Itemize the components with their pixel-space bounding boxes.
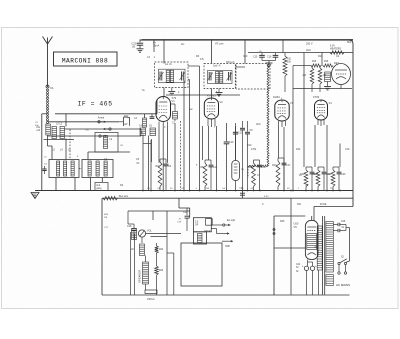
svg-text:V1: V1 [172,99,176,103]
rectifier wires [305,216,311,266]
wire row2 [48,121,119,123]
IF label [78,101,113,108]
right border wire [349,40,353,207]
svg-text:15mA: 15mA [153,45,160,48]
svg-text:C23: C23 [183,211,188,214]
speaker box [206,219,213,226]
wire x7 [292,89,294,191]
svg-text:AC: AC [181,43,185,46]
wire g V2 [174,123,176,191]
svg-text:OP: OP [195,225,199,227]
svg-text:C12: C12 [262,166,267,169]
svg-text:FUSE: FUSE [320,203,327,206]
svg-text:R11: R11 [318,55,323,58]
wire top row [55,114,130,127]
IFT1 inner box [159,69,186,83]
band switch arrows left [98,116,111,137]
detector tube V3a [332,62,351,85]
V1 cathode RC [155,159,171,191]
AVC line right [248,40,353,54]
ground under C20 [137,49,144,52]
audio wires 1 [128,211,153,224]
title box MARCONI 888 [54,52,118,66]
wire k V1c [167,126,169,163]
osc coil L6 [134,117,146,127]
detector feed [244,40,246,64]
svg-text:HT core: HT core [215,42,224,45]
avc resistor R18 [318,66,326,93]
RC pair x255 [249,160,267,191]
mains transformer secondary [317,226,322,270]
svg-text:6K4: 6K4 [347,41,352,44]
svg-text:465 kc/s: 465 kc/s [226,62,235,64]
tube V1 6BE6 [156,96,177,122]
2nd gang trimmer box [95,183,108,191]
bplus stub [153,40,155,52]
caps common ground [262,61,276,67]
mixer grid wires [130,100,157,136]
fuse wire [314,203,353,207]
svg-text:R22: R22 [159,249,164,251]
top cap capacitor [171,104,178,125]
svg-text:coil: coil [36,129,40,132]
V4 cathode RC2 [312,167,331,191]
speaker cone box [193,232,206,244]
IFT1 shield [155,62,189,88]
mains transformer core [323,216,325,295]
svg-text:2nd.: 2nd. [96,185,101,187]
svg-text:R16: R16 [324,61,329,63]
wire cathode V1 [158,127,160,163]
wire s V2 [216,126,218,191]
cap line C11b [240,121,245,191]
svg-text:250 V: 250 V [306,42,313,45]
svg-text:1M: 1M [104,217,107,219]
svg-text:HEATERS: HEATERS [330,48,342,51]
speaker terminals [211,219,235,242]
aerial coupling coil L1 [36,124,50,135]
wire w184 [183,81,185,191]
svg-text:R14: R14 [296,148,301,151]
svg-text:C10: C10 [229,141,234,144]
coil box ground wires [56,178,102,192]
svg-text:C13: C13 [238,132,243,135]
svg-text:DET: DET [334,62,339,65]
wire x3 [235,126,237,160]
svg-text:V5: V5 [294,225,298,229]
transformer taps [315,246,318,248]
IFT2 inner box [208,71,233,84]
svg-text:Aerial: Aerial [98,116,105,119]
wire x322 [321,53,323,67]
bus value labels [147,188,333,198]
mains caps [333,221,346,232]
wire k V2 [208,126,210,160]
IFT2 trimmers [207,72,232,81]
svg-text:2nd I.F.: 2nd I.F. [213,65,221,68]
svg-text:1M: 1M [323,74,326,77]
svg-text:C16: C16 [267,56,272,59]
wire k V1b [162,128,164,191]
HT labels [153,42,313,48]
feedback box [181,243,222,286]
svg-text:C24: C24 [296,264,301,266]
cap line C12b [245,121,253,191]
bus drop step [179,198,190,218]
cathode bypass C19 [177,208,190,231]
heater rail [166,94,240,96]
IFT2 bottom wire [211,89,213,99]
electro cap [232,161,245,191]
svg-text:C19: C19 [345,148,350,151]
svg-text:Bus wire: Bus wire [119,195,129,198]
svg-text:AC MAINS: AC MAINS [336,283,350,287]
svg-text:150mA: 150mA [147,298,155,301]
grid cap C13 [233,123,243,161]
svg-text:R15: R15 [312,61,317,63]
wire a V2 [202,126,204,160]
audio left wire [102,198,109,295]
screened lead [248,64,269,178]
tuning coil box L4 L5 [49,149,79,178]
switch drop wires [339,265,346,272]
bus junction blobs [142,190,341,192]
coupling cap C10 [224,123,234,191]
main ground [31,193,39,199]
V1 top cap wire [163,88,165,97]
detector shield box [236,64,270,90]
svg-text:R23: R23 [159,270,164,272]
svg-text:C17: C17 [286,164,291,167]
wire plate V1 [142,135,144,191]
cap C16 [267,53,278,61]
svg-text:V4: V4 [329,101,333,105]
IFT2 shield [204,62,235,89]
audio link wires [146,234,181,237]
svg-text:AVC: AVC [306,49,311,52]
avc resistor row [305,61,333,67]
misc component labels [35,41,352,248]
transformer tap2 [317,270,318,295]
wire row3 [65,128,142,130]
svg-text:MW: MW [124,115,129,118]
svg-text:gang: gang [96,188,102,190]
osc coil box [95,133,118,153]
mains right wire [346,225,350,262]
svg-text:V2: V2 [220,100,224,104]
coil box feed wires [48,139,131,160]
IFT1 exit wires [188,66,200,80]
switch feed [333,261,339,263]
tuning coil box 2 [82,160,113,178]
svg-text:SPEAKER: SPEAKER [138,270,142,283]
V4 cathode RC1 [300,167,319,191]
svg-text:R21: R21 [327,173,332,176]
svg-text:7w: 7w [142,89,145,92]
avc h [143,143,151,145]
IFT2 exit wires [216,67,246,96]
bus wire 2 [102,197,353,199]
avc resistor R17 [303,66,314,93]
svg-text:AVC: AVC [256,123,261,126]
svg-text:NFB: NFB [225,245,230,248]
tube V3 [273,95,294,121]
mains switch [338,257,350,265]
svg-text:SPKR: SPKR [204,230,211,233]
left down wire [42,114,48,191]
V4 bias RC [327,167,346,191]
antenna [43,37,53,88]
coupling cap C18 [127,224,137,240]
tuning coil box windings [57,161,75,176]
wire x10 [326,125,328,191]
rectifier V5 [294,220,319,259]
audio bottom wire [102,294,350,296]
svg-text:DH63: DH63 [273,95,280,99]
wire screen V1 [150,140,152,191]
tone cap [167,252,174,254]
fuse link [314,207,317,227]
V4 pins [318,120,324,126]
mains fuse [145,290,157,301]
svg-text:L2 L3: L2 L3 [56,123,63,126]
svg-text:6.3V: 6.3V [264,196,269,198]
speaker field coil [138,262,149,284]
band switch bracket [119,117,129,126]
ps link [290,198,292,294]
heater feed line [273,229,305,249]
svg-text:1st I.F.: 1st I.F. [165,63,172,66]
V2 cathode RC [200,160,217,191]
svg-text:Ext spkr: Ext spkr [227,219,236,222]
svg-text:MARCONI 888: MARCONI 888 [62,57,108,64]
mains transformer primary 2 [326,275,333,286]
V2 pins [208,119,215,127]
antenna lead-in beads [46,85,54,123]
field coil resistor [155,258,164,295]
cap C15 [253,51,265,61]
IFT1 feed wire [163,40,165,64]
bus feedthrough [239,188,245,199]
V1 pins [159,122,168,129]
svg-text:IF = 465: IF = 465 [78,101,113,108]
output transformer box [193,218,211,232]
power top wire [274,215,305,217]
tube V2 [204,94,223,120]
svg-text:C11: C11 [213,166,218,169]
grid resistor R22 [155,243,164,258]
IFT1 ground [142,88,176,95]
wire row4 [44,136,142,140]
input coil [132,229,137,241]
osc verticals [149,136,152,191]
wire w199 [199,66,201,191]
cap labels [296,264,301,273]
svg-text:OA: OA [50,87,54,90]
HT+ bus wire [140,38,353,41]
wire x8 [303,53,305,168]
audio inner wire [153,211,190,295]
wire x6 [283,127,285,191]
wire x5 [278,126,280,158]
RF coil L2 [52,123,65,139]
bus resistor R21 [103,195,129,200]
mains transformer primary [326,222,333,273]
tube V4 [313,95,332,120]
IFT1 trimmers [158,72,185,81]
svg-text:R13: R13 [272,164,277,167]
volume control [138,230,152,244]
svg-text:.05: .05 [132,44,136,48]
svg-text:C18: C18 [127,225,132,228]
IFT2 windings [216,72,223,84]
avc line [180,121,182,191]
detector wires [293,66,352,89]
decoupling capacitor C20 [132,40,144,49]
svg-text:C15: C15 [253,56,258,59]
svg-text:R20: R20 [312,173,317,176]
svg-text:VOL: VOL [147,230,152,233]
osc padder caps [139,126,156,136]
chassis bus wire [35,190,353,192]
audio verticals [131,232,174,295]
resistor R12 from bus [283,53,292,93]
power left wire [273,216,275,295]
V3 pins [279,121,286,127]
mains plug [336,272,350,287]
primary top wire [333,218,339,220]
smoothing caps [302,262,317,295]
af volume pot [324,72,331,90]
svg-text:C26: C26 [341,221,346,223]
osc grid cap [150,114,155,119]
svg-text:KT63: KT63 [313,95,320,99]
IFT2 feed wire [211,40,213,64]
wire x9 [314,125,316,167]
svg-text:C10: C10 [243,55,248,58]
svg-text:R25: R25 [280,220,285,223]
wire w189 [189,80,191,191]
padding cap C3 [42,164,47,175]
IFT1 windings [166,70,173,82]
driver coil [131,244,145,256]
svg-text:R10: R10 [247,144,252,147]
gang link [70,130,82,169]
V3 cathode RC [272,158,291,191]
wire L1 to grid row [47,135,49,141]
svg-text:C23: C23 [341,173,346,176]
wire x11 [339,144,341,168]
svg-text:470k: 470k [251,148,257,151]
